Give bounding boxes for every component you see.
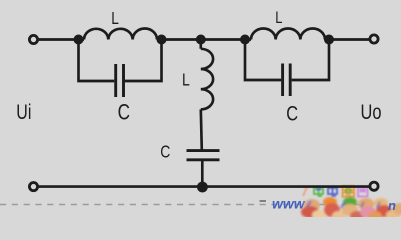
char 网: [358, 187, 368, 197]
wire top rail right segment: [325, 38, 369, 41]
inductor L (left series): [84, 29, 157, 40]
svg-text:L: L: [111, 9, 119, 28]
svg-text:www: www: [272, 196, 306, 212]
svg-text:C: C: [118, 100, 130, 125]
capacitor C (middle shunt): [187, 149, 220, 152]
terminal bottom-right: [370, 182, 378, 190]
wire middle branch top: [199, 40, 202, 49]
char 广: [303, 187, 310, 196]
figure cluster: [304, 199, 320, 211]
inductor L (middle shunt): [201, 49, 213, 110]
wire left tank left side: [79, 40, 115, 82]
wire top rail middle segment: [157, 38, 251, 41]
wire middle branch between L and C: [201, 109, 202, 150]
node junction left-tank-left: [74, 35, 84, 45]
node junction middle-bottom: [197, 182, 208, 193]
wire middle branch bottom: [201, 160, 204, 187]
svg-text:C: C: [160, 143, 170, 162]
wire left tank right side: [125, 40, 162, 82]
wire right tank left side: [245, 40, 281, 81]
svg-text:Ui: Ui: [16, 100, 31, 124]
node junction right-tank-left: [240, 35, 250, 45]
inductor L (right series): [251, 28, 325, 39]
char 器: [343, 186, 355, 197]
char 电 (1): [314, 186, 323, 196]
terminal top-right: [370, 35, 378, 43]
terminal top-left: [29, 35, 37, 43]
wire right tank right side: [292, 40, 329, 81]
watermark row2: dash + www + figures + cn: [260, 200, 267, 202]
capacitor C (right tank): [281, 64, 284, 97]
svg-text:L: L: [182, 70, 190, 90]
svg-text:C: C: [286, 102, 298, 125]
svg-text:n: n: [388, 198, 396, 213]
capacitor C (left shunt of tank): [114, 64, 117, 97]
terminal bottom-left: [29, 183, 37, 191]
char 电 (2): [328, 186, 337, 196]
dashed baseline: [0, 204, 401, 206]
node junction right-tank-right: [324, 35, 334, 45]
url letter fragments: [307, 201, 380, 208]
node junction middle-top: [196, 35, 206, 45]
wire top rail left segment: [39, 38, 85, 41]
wire bottom rail: [39, 185, 370, 188]
node junction left-tank-right: [157, 35, 167, 45]
svg-text:L: L: [275, 10, 282, 28]
svg-text:Uo: Uo: [361, 100, 382, 123]
watermark row1: 广电电器网: [303, 186, 368, 197]
